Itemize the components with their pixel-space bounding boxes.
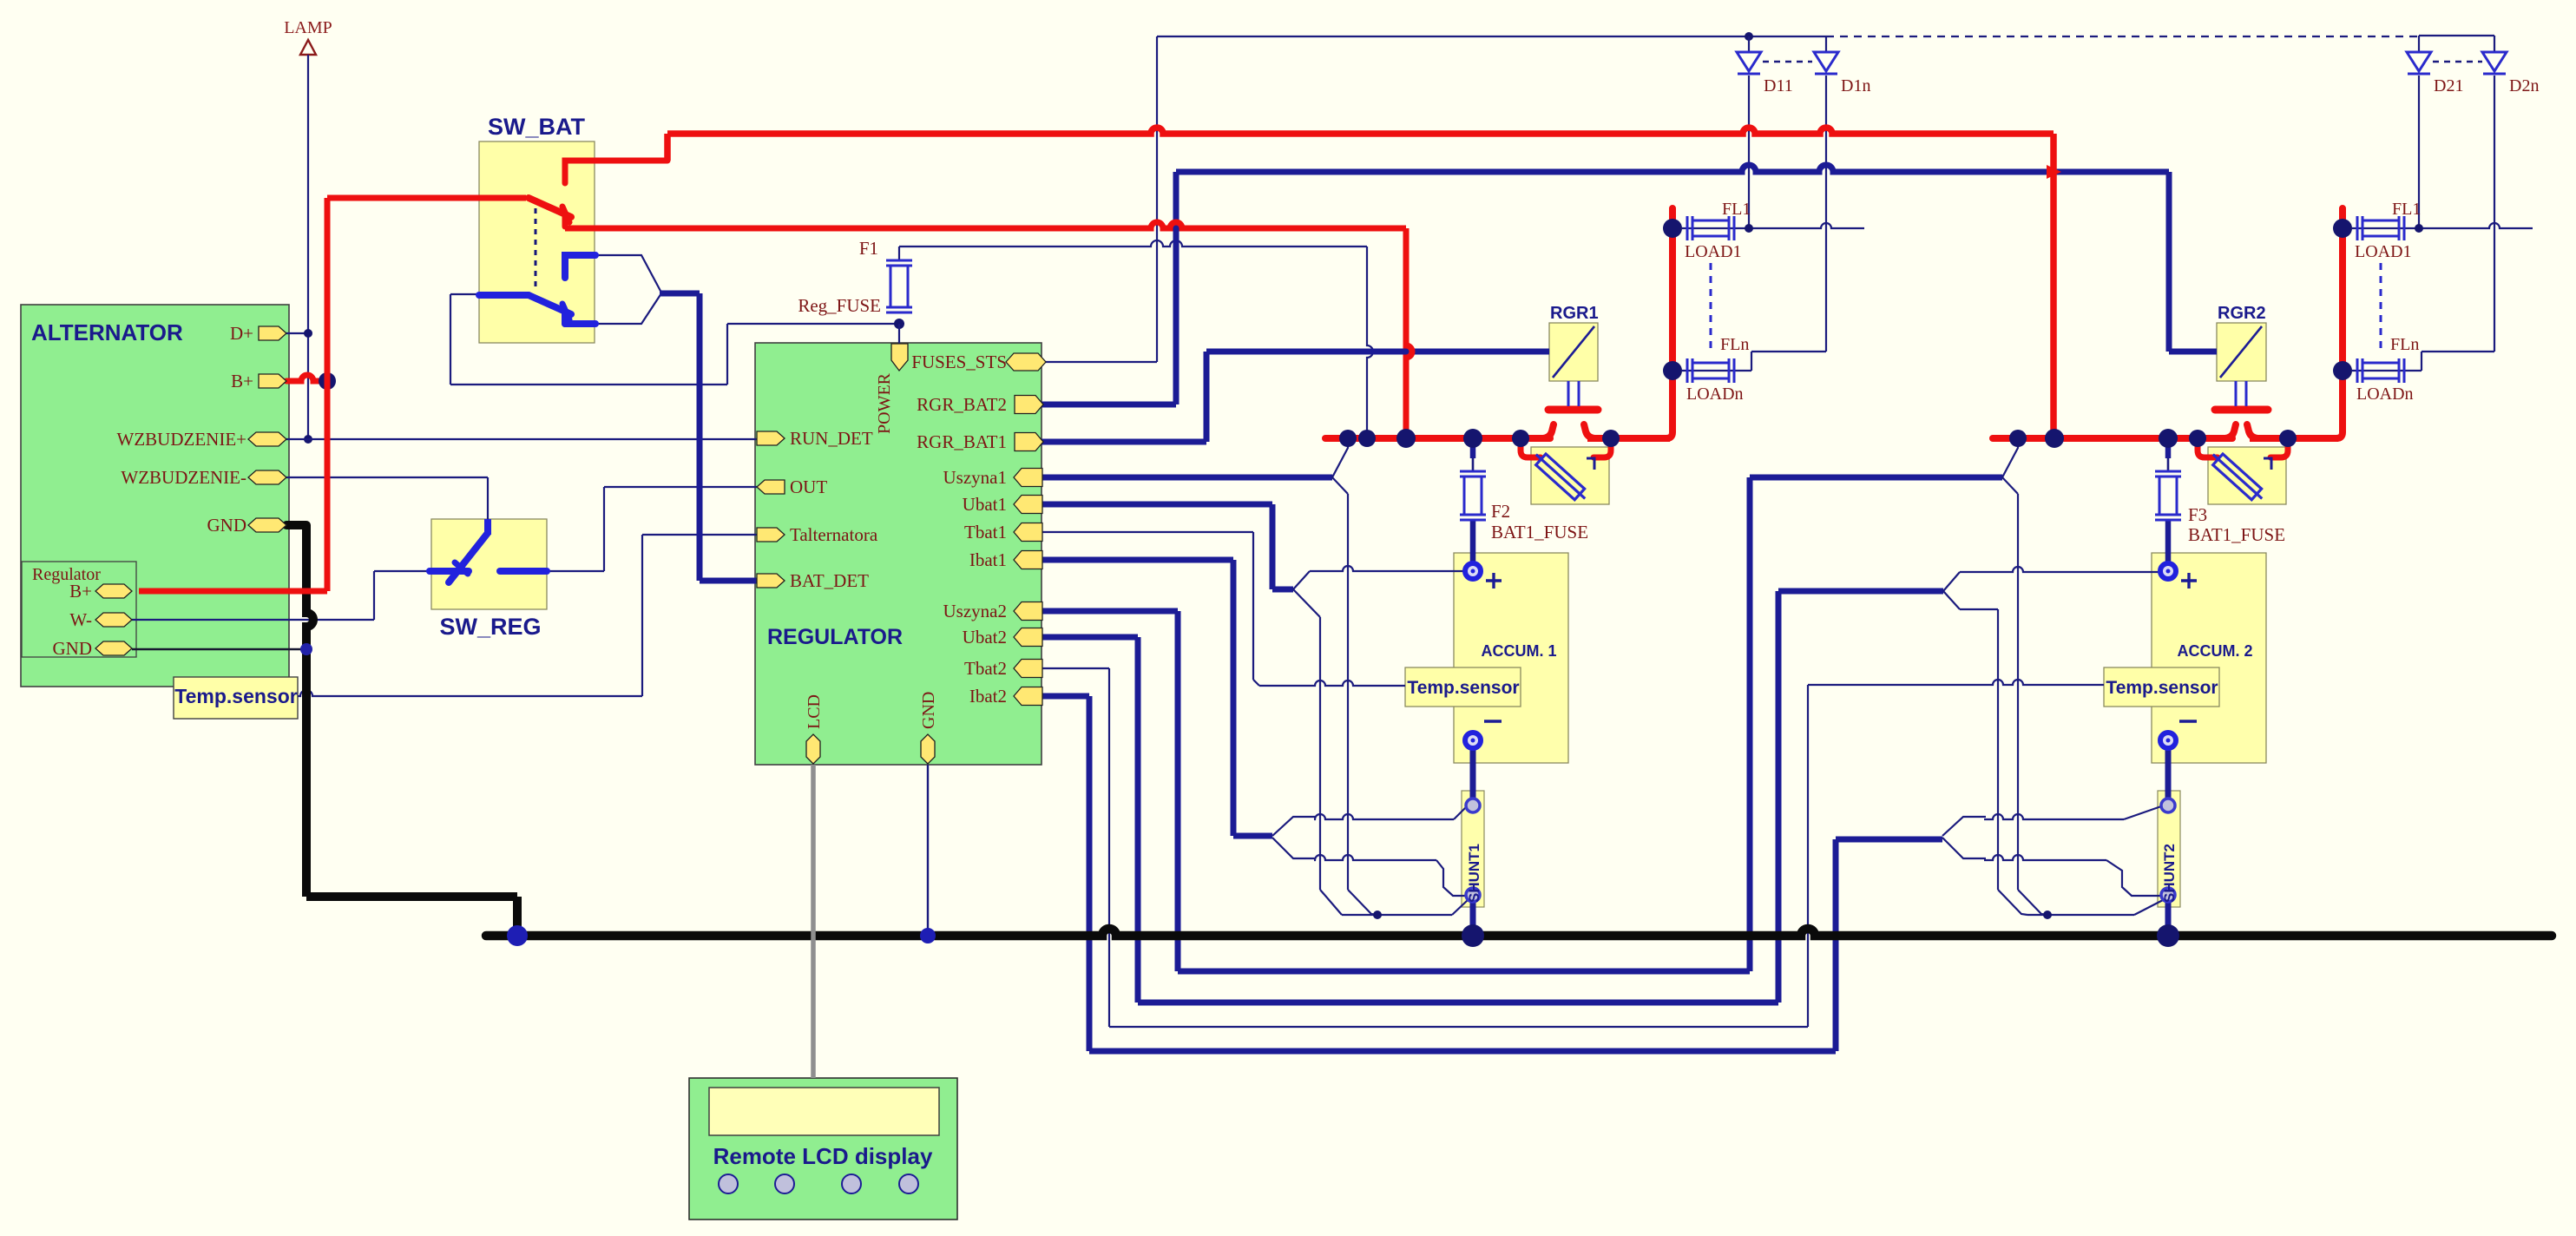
fuse F3 BAT1_FUSE bbox=[2155, 470, 2181, 473]
wire WZBUDZENIE+ to RUN_DET bbox=[286, 438, 759, 440]
svg-text:RGR1: RGR1 bbox=[1550, 304, 1599, 323]
wire LCD pin to remote display bbox=[811, 765, 816, 1078]
svg-text:LAMP: LAMP bbox=[284, 18, 332, 37]
wire shunt2 to ground bus bbox=[2165, 897, 2172, 934]
pin Tbat1 bbox=[1014, 523, 1042, 542]
switch SW_BAT body bbox=[479, 141, 595, 343]
dashed more-loads mark (battery 2) bbox=[2380, 263, 2382, 353]
svg-text:SW_BAT: SW_BAT bbox=[488, 114, 586, 140]
svg-text:LOAD1: LOAD1 bbox=[1685, 242, 1742, 261]
svg-text:FLn: FLn bbox=[2390, 335, 2419, 354]
pin GND (alt regulator) bbox=[95, 641, 132, 655]
svg-text:BAT_DET: BAT_DET bbox=[790, 570, 869, 591]
node battery2 reference junction bbox=[2043, 911, 2052, 919]
node FL1 output junction (bat2) bbox=[2415, 224, 2423, 233]
svg-text:Ibat2: Ibat2 bbox=[969, 686, 1007, 707]
wire alternator GND to ground bus bbox=[286, 521, 306, 529]
diode D1n bbox=[1814, 52, 1838, 71]
wire FLn row (battery 2) bbox=[2352, 370, 2422, 371]
wire Ubat1 riser bbox=[1041, 502, 1272, 508]
remote LCD display box bbox=[689, 1078, 957, 1220]
relay RGR2 box bbox=[2217, 323, 2266, 381]
node bus2 bypass left bbox=[2189, 430, 2206, 447]
node bus1 Uszyna tap bbox=[1339, 430, 1357, 447]
terminal battery1 plus bbox=[1465, 563, 1481, 579]
wire D1n cathode to FLn net bbox=[1825, 76, 1827, 352]
svg-text:RUN_DET: RUN_DET bbox=[790, 428, 873, 449]
switch SW_REG right contact bbox=[500, 568, 547, 575]
relay RGR2 coil pins bbox=[2235, 381, 2238, 406]
svg-text:WZBUDZENIE+: WZBUDZENIE+ bbox=[117, 429, 246, 450]
wire Ubat2 fork to battery plus bbox=[1943, 572, 1960, 591]
node F1 bottom junction bbox=[894, 319, 904, 329]
node D+/lamp junction bbox=[304, 329, 312, 338]
relay RGR1 box bbox=[1549, 323, 1598, 381]
pin RUN_DET bbox=[757, 431, 785, 445]
pad shunt2 bottom bbox=[2161, 888, 2175, 902]
wire regulator GND pin to ground trunk bbox=[132, 648, 306, 650]
wire D11 anode stub bbox=[1748, 36, 1750, 52]
net arrow into RGR_BAT2 line bbox=[2047, 165, 2061, 179]
wire RGR_BAT2 to relay RGR2 bbox=[1041, 402, 1176, 408]
node bus1 power tap bbox=[1358, 430, 1376, 447]
temp sensor box Temp.sensor (battery 2) bbox=[2104, 667, 2219, 707]
wire SW_REG left contact to W- bbox=[374, 570, 430, 572]
wire F1 top to battery1 bus bbox=[898, 247, 900, 260]
pin WZBUDZENIE+ bbox=[248, 432, 286, 446]
pin Ubat2 bbox=[1014, 628, 1042, 647]
wire OUT to SW_REG right contact bbox=[604, 486, 759, 488]
svg-text:Ubat2: Ubat2 bbox=[963, 627, 1007, 648]
wire regulator GND pin to ground bus bbox=[927, 765, 929, 936]
svg-text:BAT1_FUSE: BAT1_FUSE bbox=[1491, 522, 1588, 542]
pin RGR_BAT2 bbox=[1015, 396, 1043, 414]
minus sign battery1 bbox=[1484, 720, 1502, 722]
bypass fuse box (battery 2) bbox=[2208, 447, 2286, 504]
pin FUSES_STS bbox=[1006, 353, 1046, 371]
node ground regulator join bbox=[920, 928, 936, 943]
wire Uszyna1 reference drop bbox=[1347, 494, 1349, 890]
pin GND (regulator bottom) bbox=[921, 734, 935, 764]
battery ACCUM. 1 box bbox=[1454, 553, 1568, 763]
svg-text:POWER: POWER bbox=[875, 372, 894, 434]
bypass fuse diagonal (battery 1) bbox=[1531, 450, 1590, 504]
wire shunt1 to ground bus bbox=[1470, 897, 1476, 934]
svg-text:Ubat1: Ubat1 bbox=[963, 494, 1007, 515]
pin GND (alternator) bbox=[248, 518, 286, 532]
wire D+ to lamp net bbox=[286, 332, 308, 334]
svg-text:D21: D21 bbox=[2434, 76, 2463, 95]
bypass hook left (battery 2) bbox=[2198, 438, 2218, 457]
node bus2 load feed bbox=[2333, 219, 2352, 238]
svg-text:Temp.sensor: Temp.sensor bbox=[174, 685, 297, 707]
temp sensor box Temp.sensor (battery 1) bbox=[1405, 667, 1521, 707]
svg-text:GND: GND bbox=[53, 638, 93, 659]
wire SW_BAT output to BAT_DET bbox=[660, 291, 700, 297]
wire dashed link D11-D1n bbox=[1763, 61, 1812, 63]
switch SW_BAT mechanical link dashed bbox=[535, 208, 537, 292]
node bus1 load feed bbox=[1663, 219, 1682, 238]
svg-text:FUSES_STS: FUSES_STS bbox=[911, 352, 1007, 372]
power bus battery 2 bbox=[1993, 435, 2232, 442]
svg-text:GND: GND bbox=[207, 515, 247, 536]
wire F2 to battery1 plus bbox=[1470, 520, 1476, 564]
bypass hook right (battery 2) bbox=[2270, 438, 2288, 457]
wire D21 cathode to FL1 junction (bat2) bbox=[2418, 76, 2420, 228]
wire Ubat1 reference drop bbox=[1293, 589, 1320, 617]
svg-text:B+: B+ bbox=[231, 371, 253, 391]
svg-text:D11: D11 bbox=[1764, 76, 1793, 95]
switch SW_REG left contact bbox=[430, 568, 469, 575]
switch hook left (RGR2 contact) bbox=[2225, 424, 2236, 438]
svg-text:WZBUDZENIE-: WZBUDZENIE- bbox=[121, 467, 246, 488]
wire battery2 reference join bbox=[2027, 914, 2134, 916]
svg-text:Reg_FUSE: Reg_FUSE bbox=[798, 295, 881, 316]
svg-text:Temp.sensor: Temp.sensor bbox=[2106, 678, 2218, 698]
button 4 (LCD) bbox=[899, 1174, 918, 1193]
pin WZBUDZENIE- bbox=[248, 470, 286, 484]
plus sign battery2 bbox=[2181, 573, 2197, 588]
regulator block REGULATOR bbox=[755, 343, 1042, 765]
battery ACCUM. 2 box bbox=[2152, 553, 2266, 763]
switch SW_BAT pole1 arm bbox=[529, 198, 571, 217]
svg-text:RGR_BAT2: RGR_BAT2 bbox=[917, 394, 1007, 415]
wire Ibat1 to shunt split bbox=[1041, 557, 1233, 563]
wire bus tap zigzag (battery 2) bbox=[2002, 438, 2018, 494]
wire Tbat1 to Temp.sensor bbox=[1041, 531, 1253, 533]
svg-text:D2n: D2n bbox=[2509, 76, 2539, 95]
wire Temp.sensor(alt) to Talternatora bbox=[298, 690, 642, 696]
node bus2 F3 tap bbox=[2159, 429, 2178, 448]
wire regulator B+ riser bbox=[325, 198, 331, 591]
pin Ibat1 bbox=[1014, 551, 1042, 569]
switch SW_REG body bbox=[431, 519, 547, 609]
wire alternator B+ pigtail bbox=[286, 375, 323, 381]
wire Ibat2 return bbox=[1041, 694, 1089, 700]
fuse FLn (battery 1) bbox=[1686, 358, 1689, 383]
pad shunt2 top bbox=[2161, 799, 2175, 812]
power bus battery 1 bbox=[1325, 435, 1550, 442]
wire battery2 minus to shunt2 bbox=[2165, 746, 2172, 802]
pin OUT bbox=[757, 480, 785, 494]
node regulator GND trunk tap bbox=[300, 643, 312, 655]
power bus battery 1 right part bbox=[1587, 435, 1670, 442]
wire lamp vertical to D+ and WZBUDZENIE+ bbox=[307, 55, 309, 439]
fuse FLn (battery 2) bbox=[2356, 358, 2359, 383]
wire Uszyna2 reference drop bbox=[2017, 494, 2019, 890]
svg-text:F3: F3 bbox=[2188, 504, 2207, 525]
wire Ubat2 reference drop bbox=[1943, 591, 1960, 609]
LCD screen area bbox=[709, 1088, 939, 1135]
wire FL1 row (battery 2) bbox=[2352, 223, 2533, 228]
svg-text:FL1: FL1 bbox=[2392, 200, 2421, 219]
bypass hook right (battery 1) bbox=[1594, 438, 1611, 457]
minus sign battery2 bbox=[2179, 720, 2197, 722]
wire D2n cathode to FLn net (bat2) bbox=[2494, 76, 2495, 352]
wire shunt2 bottom sense bbox=[1984, 855, 2106, 860]
pin Ibat2 bbox=[1014, 687, 1042, 706]
svg-text:D1n: D1n bbox=[1841, 76, 1870, 95]
node bus2 load feed n bbox=[2333, 361, 2352, 380]
wire F1 bottom to POWER pin bbox=[898, 324, 900, 344]
svg-text:FLn: FLn bbox=[1720, 335, 1749, 354]
svg-text:ACCUM. 1: ACCUM. 1 bbox=[1481, 642, 1556, 660]
svg-text:FL1: FL1 bbox=[1722, 200, 1751, 219]
wire RGR_BAT1 to relay RGR1 bbox=[1041, 439, 1206, 445]
switch SW_REG arm bbox=[449, 533, 488, 582]
wire Tbat2 return bbox=[1041, 667, 1109, 669]
node B+ junction bbox=[319, 372, 336, 390]
diode D2n bbox=[2482, 52, 2507, 71]
plus sign battery1 bbox=[1486, 573, 1502, 588]
svg-text:GND: GND bbox=[919, 692, 938, 729]
svg-text:SHUNT2: SHUNT2 bbox=[2161, 844, 2178, 903]
wire battery1 minus to shunt1 bbox=[1470, 746, 1476, 802]
ground bus bbox=[486, 929, 2552, 936]
svg-text:BAT1_FUSE: BAT1_FUSE bbox=[2188, 524, 2285, 545]
pin Ubat1 bbox=[1014, 496, 1042, 514]
node WZBUDZENIE+/lamp junction bbox=[304, 435, 312, 444]
svg-text:LCD: LCD bbox=[805, 694, 824, 729]
svg-text:LOAD1: LOAD1 bbox=[2355, 242, 2412, 261]
split symbol Ibat1 kelvin pair bbox=[1272, 817, 1316, 836]
pin Uszyna1 bbox=[1014, 469, 1042, 487]
pin BAT_DET bbox=[757, 574, 785, 588]
button 1 (LCD) bbox=[719, 1174, 738, 1193]
relay RGR1 coil pins bbox=[1567, 381, 1570, 406]
switch hook right (RGR1 contact) bbox=[1584, 424, 1594, 438]
switch SW_BAT lower contact to bus1 bbox=[562, 214, 568, 227]
node ground shunt2 join bbox=[2157, 924, 2179, 947]
svg-text:ACCUM. 2: ACCUM. 2 bbox=[2177, 642, 2252, 660]
pad shunt1 top bbox=[1466, 799, 1480, 812]
wire bus tap zigzag (battery 1) bbox=[1332, 438, 1348, 494]
fuse FL1 (battery 2) bbox=[2356, 216, 2359, 240]
node bus1 bypass left bbox=[1512, 430, 1529, 447]
svg-text:Temp.sensor: Temp.sensor bbox=[1407, 678, 1519, 698]
node battery1 reference junction bbox=[1373, 911, 1382, 919]
bypass hook left (battery 1) bbox=[1521, 438, 1541, 457]
wire FL1 row (battery 1) bbox=[1682, 223, 1864, 228]
svg-text:B+: B+ bbox=[69, 581, 92, 602]
node ground shunt1 join bbox=[1462, 924, 1484, 947]
svg-text:F1: F1 bbox=[859, 238, 878, 259]
node bus1 load feed n bbox=[1663, 361, 1682, 380]
wire dashed link D21-D2n bbox=[2433, 61, 2482, 63]
svg-text:Talternatora: Talternatora bbox=[790, 524, 878, 545]
merge symbol at SW_BAT output bbox=[596, 255, 661, 293]
svg-text:OUT: OUT bbox=[790, 477, 827, 497]
terminal battery2 plus bbox=[2160, 563, 2176, 579]
node bus1 B+ feed bbox=[1396, 429, 1416, 448]
node diode D11 tap bbox=[1745, 32, 1753, 41]
node bus2 Uszyna tap bbox=[2009, 430, 2027, 447]
wire FUSES_STS to diode rail bbox=[1041, 361, 1157, 363]
diode D21 bbox=[2407, 52, 2431, 71]
svg-text:F2: F2 bbox=[1491, 501, 1510, 522]
node ground alternator join bbox=[507, 925, 528, 946]
switch SW_BAT lower throw contact bbox=[562, 312, 568, 324]
node bus2 top feed bbox=[2045, 429, 2064, 448]
pin W- (alt regulator) bbox=[95, 613, 132, 627]
wire Uszyna1 to bus tap bbox=[1041, 475, 1332, 481]
svg-text:LOADn: LOADn bbox=[1686, 385, 1744, 404]
dashed more-loads mark (battery 1) bbox=[1710, 263, 1712, 353]
relay RGR2 contact bar bbox=[2215, 406, 2268, 414]
wire Ubat2 return bbox=[1041, 634, 1138, 641]
wire shunt1 top sense bbox=[1314, 814, 1454, 819]
svg-text:Uszyna1: Uszyna1 bbox=[943, 467, 1007, 488]
svg-text:Ibat1: Ibat1 bbox=[969, 549, 1007, 570]
pin B+ (alt regulator) bbox=[95, 584, 132, 598]
svg-text:RGR_BAT1: RGR_BAT1 bbox=[917, 431, 1007, 452]
svg-text:Tbat2: Tbat2 bbox=[964, 658, 1007, 679]
button 3 (LCD) bbox=[842, 1174, 861, 1193]
wire D11 cathode to FL1 junction bbox=[1748, 76, 1750, 228]
pin Talternatora bbox=[757, 528, 785, 542]
wire D1n anode stub bbox=[1825, 36, 1827, 52]
alternator block ALTERNATOR bbox=[21, 305, 289, 687]
fuse F1 Reg_FUSE bbox=[886, 260, 912, 262]
switch hook left (RGR1 contact) bbox=[1543, 424, 1554, 438]
wire Ubat1 fork to battery plus bbox=[1293, 571, 1310, 589]
node FL1 output junction bbox=[1745, 224, 1753, 233]
wire FLn row (battery 1) bbox=[1682, 370, 1751, 371]
split symbol Ibat2 kelvin pair bbox=[1942, 817, 1986, 836]
switch SW_BAT pole2 arm bbox=[529, 295, 571, 314]
power bus battery 2 right part bbox=[2250, 435, 2338, 442]
lamp symbol LAMP bbox=[300, 40, 316, 55]
node bus2 bypass right bbox=[2279, 430, 2297, 447]
wire top red feed to battery2 bbox=[667, 128, 2054, 134]
pin POWER bbox=[891, 344, 908, 371]
bypass fuse box (battery 1) bbox=[1531, 447, 1609, 504]
wire bus to F3 fuse bbox=[2167, 438, 2170, 471]
switch SW_BAT pole2 line bbox=[479, 292, 529, 299]
node bus1 bypass right bbox=[1602, 430, 1620, 447]
svg-text:Uszyna2: Uszyna2 bbox=[943, 601, 1007, 621]
wire F3 to battery2 plus bbox=[2165, 520, 2172, 564]
relay RGR1 diagonal bbox=[1553, 326, 1594, 378]
shunt SHUNT1 body bbox=[1462, 791, 1484, 907]
fuse FL1 (battery 1) bbox=[1686, 216, 1689, 240]
wire Uszyna2 return bbox=[1041, 608, 1178, 615]
wire dashed diode rail D1n to D21 bbox=[1826, 36, 2419, 37]
wire WZBUDZENIE- to SW_REG bbox=[286, 477, 488, 478]
svg-text:SW_REG: SW_REG bbox=[439, 614, 541, 640]
svg-text:ALTERNATOR: ALTERNATOR bbox=[31, 319, 183, 345]
button 2 (LCD) bbox=[775, 1174, 794, 1193]
pin RGR_BAT1 bbox=[1015, 433, 1043, 451]
diode D11 bbox=[1737, 52, 1761, 71]
node bus1 F2 tap bbox=[1463, 429, 1482, 448]
bypass fuse diagonal (battery 2) bbox=[2208, 450, 2267, 504]
pin Tbat2 bbox=[1014, 660, 1042, 678]
wire shunt1 bottom sense bbox=[1314, 855, 1436, 860]
svg-text:REGULATOR: REGULATOR bbox=[767, 625, 903, 649]
wire battery1 reference join bbox=[1342, 914, 1452, 916]
terminal battery1 minus bbox=[1465, 733, 1481, 748]
temp sensor box Temp.sensor (alternator) bbox=[174, 677, 298, 719]
wire shunt2 top sense bbox=[1984, 814, 2124, 819]
terminal battery2 minus bbox=[2160, 733, 2176, 748]
svg-text:SHUNT1: SHUNT1 bbox=[1466, 844, 1482, 903]
switch SW_BAT upper contact bbox=[565, 161, 667, 183]
wire diode rail D21 to D2n bbox=[2419, 35, 2494, 36]
pin B+ (alternator) bbox=[259, 374, 286, 388]
fuse F2 BAT1_FUSE bbox=[1460, 470, 1486, 473]
shunt SHUNT2 body bbox=[2158, 791, 2180, 907]
svg-text:LOADn: LOADn bbox=[2356, 385, 2414, 404]
svg-text:Remote LCD display: Remote LCD display bbox=[713, 1143, 933, 1169]
pad shunt1 bottom bbox=[1466, 888, 1480, 902]
wire D21 anode stub bbox=[2418, 36, 2420, 52]
relay RGR1 contact bar bbox=[1548, 406, 1598, 414]
pin Uszyna2 bbox=[1014, 602, 1042, 621]
pin LCD bbox=[806, 734, 820, 764]
switch SW_BAT upper throw contact bbox=[565, 255, 595, 278]
svg-text:RGR2: RGR2 bbox=[2218, 304, 2266, 323]
pin D+ (alternator) bbox=[259, 326, 286, 340]
svg-text:Tbat1: Tbat1 bbox=[964, 522, 1007, 542]
wire bus to F2 fuse bbox=[1472, 438, 1475, 471]
svg-text:W-: W- bbox=[69, 609, 92, 630]
alternator internal regulator sub-box bbox=[22, 562, 136, 657]
switch hook right (RGR2 contact) bbox=[2247, 424, 2257, 438]
relay RGR2 diagonal bbox=[2220, 326, 2262, 378]
wire D2n anode stub bbox=[2494, 36, 2495, 52]
svg-text:D+: D+ bbox=[230, 323, 253, 344]
wire SW_BAT pole2 to F1/POWER net bbox=[450, 293, 479, 295]
